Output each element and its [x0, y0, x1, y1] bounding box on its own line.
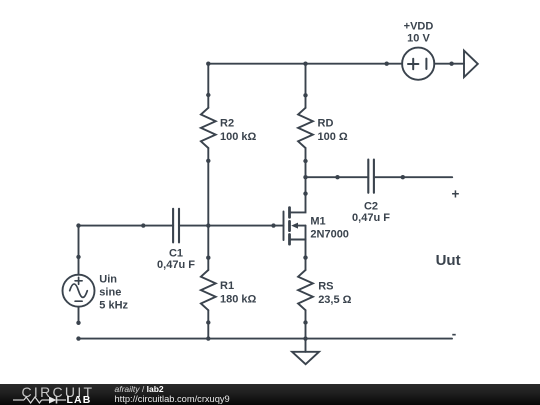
svg-text:R2: R2 [220, 118, 234, 130]
svg-text:100 kΩ: 100 kΩ [220, 131, 257, 143]
label R1 value 180 kOhm [220, 293, 257, 305]
junction node at RD / top rail [303, 62, 307, 66]
svg-text:RD: RD [318, 118, 334, 130]
capacitor C2 [335, 160, 405, 193]
svg-text:0,47u F: 0,47u F [157, 259, 195, 271]
resistor R2 [201, 93, 216, 163]
wire bottom rail [79, 338, 453, 340]
label RS name [318, 281, 333, 293]
CircuitLab logo wordmark LAB [67, 394, 92, 405]
wire top rail from R2 top to VDD source left terminal [208, 63, 402, 65]
svg-text:0,47u F: 0,47u F [352, 212, 390, 224]
label RD name [318, 118, 334, 130]
resistor R1 [201, 256, 216, 325]
svg-text:R1: R1 [220, 280, 234, 292]
capacitor C1 [141, 209, 179, 243]
wire left column from gate row corner to Uin top [78, 226, 80, 257]
wire from RD top rail junction down to RD [305, 64, 307, 96]
junction node R2/R1/C1/gate [206, 223, 210, 227]
label C2 name [364, 200, 378, 212]
svg-text:23,5 Ω: 23,5 Ω [318, 294, 351, 306]
svg-text:sine: sine [99, 287, 121, 299]
label R2 name [220, 118, 234, 130]
wire gate row from C1 right plate to M1 gate [179, 225, 274, 227]
svg-text:Uin: Uin [99, 274, 117, 286]
footer bar [0, 384, 540, 405]
wire from R2 bottom to gate-row junction [207, 161, 209, 226]
junction node at R2 top corner [206, 62, 210, 66]
svg-text:afrailty / lab2: afrailty / lab2 [115, 384, 164, 394]
wire from RS bottom to bottom rail [305, 323, 307, 339]
svg-text:-: - [452, 326, 457, 341]
voltage source Uin (sine 5 kHz) [63, 255, 95, 325]
net flag VDD triangle [464, 51, 478, 78]
voltage source VDD (+VDD 10 V) [385, 48, 435, 80]
label Uin name [99, 274, 117, 286]
junction node at Uin top corner [76, 223, 80, 227]
svg-text:C1: C1 [169, 247, 183, 259]
label RS value 23,5 Ohm [318, 294, 351, 306]
svg-text:100 Ω: 100 Ω [318, 131, 348, 143]
junction node RD / C2 branch [303, 175, 307, 179]
wire from top rail down to R2 [207, 64, 209, 95]
label output + terminal [452, 187, 460, 202]
svg-text:2N7000: 2N7000 [310, 229, 349, 241]
resistor RD [298, 93, 313, 163]
svg-text:C2: C2 [364, 200, 378, 212]
svg-text:http://circuitlab.com/crxuqy9: http://circuitlab.com/crxuqy9 [115, 394, 230, 404]
label C1 name [169, 247, 183, 259]
svg-text:180 kΩ: 180 kΩ [220, 293, 257, 305]
resistor RS [298, 270, 313, 325]
label Uin frequency 5 kHz [99, 300, 128, 312]
junction node bottom-left corner [76, 336, 80, 340]
svg-text:5 kHz: 5 kHz [99, 300, 128, 312]
wire C2 branch from junction to C2 left plate [306, 176, 369, 178]
svg-text:+: + [452, 187, 460, 202]
label Uin type sine [99, 287, 121, 299]
junction node R1 / bottom rail [206, 336, 210, 340]
svg-text:RS: RS [318, 281, 333, 293]
wire from RD bottom to M1 drain [305, 161, 307, 194]
label output - terminal [452, 326, 457, 341]
svg-text:M1: M1 [310, 216, 325, 228]
node VDD net flag terminal [449, 62, 453, 66]
CircuitLab logo wordmark CIRCUIT [22, 384, 95, 400]
wire from VDD source to net flag [434, 63, 464, 65]
label M1 name [310, 216, 325, 228]
wire gate row from Uin corner to C1 left plate [79, 225, 174, 227]
label C2 value 0,47u F [352, 212, 390, 224]
svg-text:LAB: LAB [67, 394, 92, 405]
footer url [115, 394, 230, 404]
svg-text:10 V: 10 V [407, 33, 430, 45]
transistor M1 (NMOS 2N7000) [271, 191, 307, 259]
label C1 value 0,47u F [157, 259, 195, 271]
node label Uut [436, 252, 461, 269]
svg-text:+VDD: +VDD [404, 20, 434, 32]
wire from R1 bottom to bottom rail [207, 323, 209, 339]
label RD value 100 Ohm [318, 131, 348, 143]
footer text afrailty / lab2 [115, 384, 164, 394]
wire from M1 source to RS [305, 258, 307, 270]
label R1 name [220, 280, 234, 292]
svg-text:Uut: Uut [436, 252, 461, 269]
label M1 value 2N7000 [310, 229, 349, 241]
ground [292, 339, 319, 365]
label VDD value 10 V [407, 33, 430, 45]
label VDD name +VDD [404, 20, 434, 32]
wire C2 right plate to output + terminal [374, 176, 452, 178]
label R2 value 100 kOhm [220, 131, 257, 143]
CircuitLab logo schematic squiggle [13, 397, 66, 404]
junction node RS / ground / bottom rail [303, 336, 307, 340]
wire from gate row junction down to R1 [207, 226, 209, 258]
